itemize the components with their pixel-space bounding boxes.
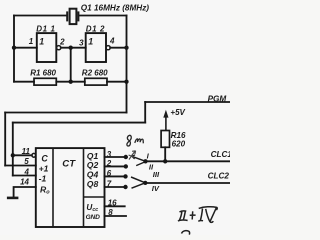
resistor R2 (85, 78, 107, 85)
wire right bus (126, 16, 128, 113)
switch contact pin6 (123, 174, 127, 178)
wire pin 16 (105, 205, 125, 207)
pencil tick mark (129, 151, 136, 160)
wire D1.1 output to D1.2 input (61, 47, 86, 49)
wire crystal to right bus (79, 15, 126, 17)
resistor R16 (161, 131, 169, 148)
svg-text:1: 1 (88, 36, 93, 46)
svg-text:D1 2: D1 2 (86, 25, 105, 34)
svg-text:CLC1: CLC1 (211, 150, 230, 159)
switch wiper SA1.2 (131, 177, 145, 188)
svg-text:4: 4 (24, 167, 30, 176)
switch contact pin7 (123, 185, 127, 189)
svg-text:+1: +1 (39, 164, 49, 174)
+5V arrow (163, 110, 168, 131)
wire inner horizontal run (13, 122, 145, 124)
node R1-R2 (69, 80, 73, 84)
svg-text:3: 3 (107, 150, 112, 159)
wire PGM horizontal (145, 101, 229, 103)
resistor R1 (34, 78, 56, 85)
wire inner left vertical (12, 123, 14, 176)
svg-text:16: 16 (108, 198, 117, 207)
node mid oscillator (69, 46, 73, 50)
node D1.2 output (124, 46, 128, 50)
wire pin 8 (105, 215, 127, 217)
handwritten IV (198, 207, 217, 223)
svg-text:R2 680: R2 680 (82, 69, 108, 78)
handwritten m (135, 139, 144, 143)
handwritten 8 (127, 135, 131, 146)
wire pin 14 line (14, 187, 36, 197)
svg-text:GND: GND (86, 214, 100, 221)
wire CLC2 line (145, 182, 229, 184)
svg-text:7: 7 (107, 180, 112, 189)
counter divider power section (84, 196, 105, 198)
svg-text:3: 3 (79, 39, 84, 48)
svg-text:14: 14 (20, 178, 29, 187)
wire left bus (13, 16, 15, 82)
svg-text:1: 1 (29, 37, 34, 46)
wire oscillator output horizontal run (5, 112, 126, 114)
wire top left to crystal (14, 15, 66, 17)
wire pin 5 line (5, 165, 36, 167)
wire Q4 out pin 6 (105, 175, 125, 177)
handwritten II (178, 211, 188, 221)
wire Q1 out pin 3 (105, 156, 125, 158)
counter partition right (83, 148, 85, 227)
node PGM branch (11, 153, 15, 157)
wire outer left vertical (4, 113, 6, 166)
svg-text:IV: IV (152, 184, 160, 193)
svg-text:C: C (41, 154, 48, 164)
svg-text:R1 680: R1 680 (30, 69, 56, 78)
svg-text:6: 6 (107, 169, 112, 178)
handwritten plus (190, 211, 196, 219)
output bubble D1.2 (106, 46, 110, 50)
wire PGM step down (144, 102, 146, 123)
svg-text:2: 2 (106, 159, 112, 168)
wire D1.1 input (14, 47, 37, 49)
svg-text:5: 5 (24, 157, 29, 166)
svg-text:PGM: PGM (208, 94, 227, 103)
svg-text:D1 1: D1 1 (36, 25, 55, 34)
wire mid node vertical (70, 48, 72, 82)
wire D1.2 output to right bus (110, 47, 126, 49)
paper background (0, 0, 230, 235)
svg-text:11: 11 (22, 147, 31, 156)
svg-text:Q2: Q2 (87, 160, 99, 170)
node R2 right bus (124, 80, 128, 84)
ground (7, 197, 19, 200)
wire Q2 out pin 2 (105, 165, 125, 167)
inverter D1.2 (86, 33, 106, 62)
wire Q8 out pin 7 (105, 186, 125, 188)
svg-text:2: 2 (59, 37, 65, 46)
svg-text:1: 1 (39, 36, 44, 46)
wire CLC1 line (146, 160, 230, 162)
svg-text:Q1 16MHz (8MHz): Q1 16MHz (8MHz) (81, 3, 150, 12)
svg-text:620: 620 (172, 139, 186, 148)
svg-text:Q8: Q8 (87, 179, 99, 189)
wire R1 to R2 (56, 81, 85, 83)
inverter D1.1 (37, 33, 57, 62)
handwritten partial glyph bottom (182, 231, 190, 235)
wire R2 to right bus (107, 81, 127, 83)
switch wiper SA1.1 (132, 155, 146, 166)
wire pin 11 line (13, 154, 32, 156)
node R16 CLC1 (163, 159, 167, 163)
pin bubble C input (32, 153, 36, 157)
wire R16 to CLC1 (164, 147, 166, 161)
svg-text:III: III (153, 170, 160, 179)
node wiper1 common (143, 159, 147, 163)
svg-text:+5V: +5V (170, 108, 185, 117)
node wiper2 common (143, 181, 147, 185)
wire pin 4 line (13, 175, 36, 177)
wire left bus to R1 (14, 81, 34, 83)
crystal Q1 (67, 9, 78, 24)
switch contact pin3 (124, 155, 128, 159)
svg-text:-1: -1 (39, 174, 47, 184)
svg-text:CT: CT (62, 158, 76, 169)
svg-text:CLC2: CLC2 (208, 172, 230, 181)
counter partition left (52, 148, 54, 227)
output bubble D1.1 (57, 46, 61, 50)
switch contact pin2 (124, 164, 128, 168)
node left bus D1.1 input (12, 46, 16, 50)
svg-text:8: 8 (108, 208, 113, 217)
svg-text:4: 4 (109, 37, 115, 46)
counter D2 box (36, 148, 105, 227)
